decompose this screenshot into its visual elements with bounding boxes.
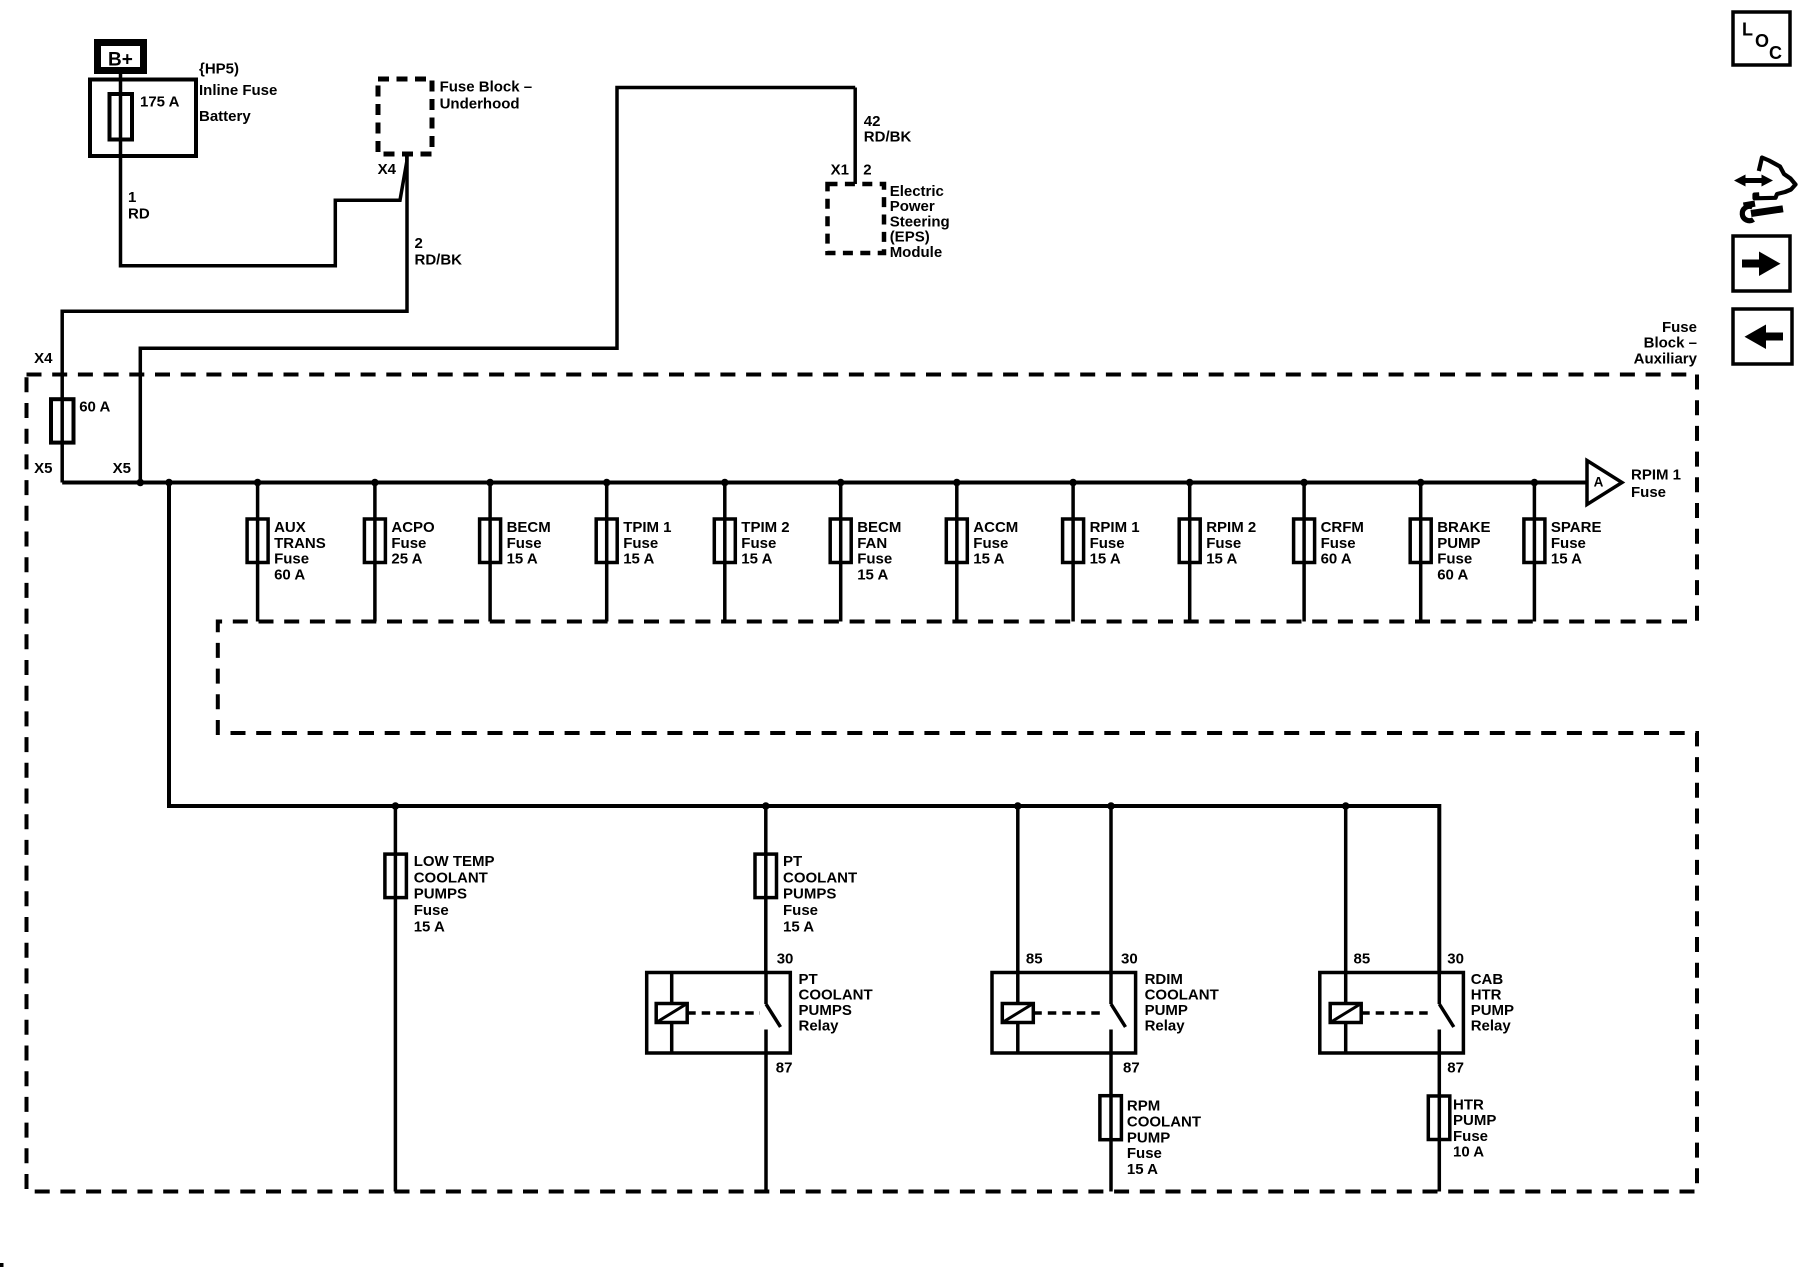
svg-text:Fuse: Fuse [274,551,309,568]
B+ terminal symbol [98,43,144,71]
fuse RPIM 2 [1179,479,1256,622]
fuse PT COOLANT PUMPS [755,802,857,972]
svg-text:COOLANT: COOLANT [783,869,857,886]
svg-text:RD: RD [128,205,150,222]
svg-text:Battery: Battery [199,108,251,125]
fuse RPIM 1 [1063,479,1140,622]
svg-text:PUMP: PUMP [1471,1002,1514,1019]
svg-text:Fuse: Fuse [1551,535,1586,552]
main bus X5 [62,481,1586,485]
svg-text:Fuse: Fuse [857,551,892,568]
svg-text:CRFM: CRFM [1321,519,1364,536]
svg-text:2: 2 [863,162,871,179]
relay CAB HTR PUMP [1320,950,1514,1076]
svg-text:Fuse: Fuse [414,902,449,919]
svg-text:Module: Module [890,244,943,261]
svg-text:Fuse Block –: Fuse Block – [440,79,533,96]
svg-text:RD/BK: RD/BK [864,128,912,145]
svg-text:Fuse: Fuse [507,535,542,552]
svg-text:X1: X1 [831,162,849,179]
svg-text:Relay: Relay [1471,1018,1512,1035]
LOC icon box [1733,12,1790,65]
fuse block auxiliary dashed outline [27,375,1698,1192]
X4 label aux entry [34,350,53,367]
svg-text:AUX: AUX [274,519,306,536]
svg-text:X5: X5 [34,460,52,477]
forward arrow icon [1733,236,1790,291]
svg-text:HTR: HTR [1471,987,1502,1004]
feed wire to lower bus [169,483,1439,973]
svg-text:Fuse: Fuse [1127,1145,1162,1162]
relay PT COOLANT PUMPS [647,950,873,1076]
svg-text:PUMP: PUMP [1145,1002,1188,1019]
svg-text:Relay: Relay [1145,1018,1186,1035]
svg-text:15 A: 15 A [623,551,654,568]
svg-text:Block –: Block – [1644,335,1697,352]
svg-text:87: 87 [1123,1060,1140,1077]
svg-text:PUMP: PUMP [1127,1129,1170,1146]
svg-text:HTR: HTR [1453,1096,1484,1113]
back arrow icon [1733,309,1792,364]
X4 pin label underhood [378,161,397,178]
svg-text:RPIM 2: RPIM 2 [1206,519,1256,536]
svg-text:CAB: CAB [1471,971,1504,988]
svg-text:RPIM 1: RPIM 1 [1090,519,1140,536]
svg-text:15 A: 15 A [741,551,772,568]
svg-text:15 A: 15 A [1551,551,1582,568]
EPS module labels [890,183,950,261]
svg-text:Fuse: Fuse [391,535,426,552]
svg-text:30: 30 [777,950,794,967]
wire 2 RD/BK down to aux block [62,156,407,483]
svg-text:Relay: Relay [799,1018,840,1035]
svg-text:PT: PT [783,853,802,870]
svg-text:85: 85 [1026,950,1043,967]
svg-text:15 A: 15 A [857,566,888,583]
svg-text:BECM: BECM [857,519,901,536]
svg-text:Underhood: Underhood [440,96,520,113]
fuse BECM FAN [830,479,901,622]
X5 labels [34,460,131,477]
svg-text:COOLANT: COOLANT [1127,1114,1201,1131]
svg-text:Fuse: Fuse [1090,535,1125,552]
svg-text:60 A: 60 A [1437,566,1468,583]
svg-text:TPIM 2: TPIM 2 [741,519,789,536]
battery labels [199,60,277,125]
fuse 60 A [51,398,110,442]
svg-text:Fuse: Fuse [973,535,1008,552]
svg-text:175 A: 175 A [140,94,180,111]
svg-text:30: 30 [1121,950,1138,967]
fuse HTR PUMP [1428,1053,1496,1192]
fuse 175 A [110,94,180,140]
svg-text:TPIM 1: TPIM 1 [623,519,671,536]
svg-text:PUMP: PUMP [1437,535,1480,552]
svg-text:15 A: 15 A [507,551,538,568]
svg-text:Fuse: Fuse [741,535,776,552]
svg-text:SPARE: SPARE [1551,519,1602,536]
svg-text:B+: B+ [108,50,133,71]
svg-text:{HP5): {HP5) [199,60,239,77]
svg-text:RPIM 1: RPIM 1 [1631,467,1681,484]
junction node wire 42 [137,479,145,487]
fuse block underhood dashed box [378,79,432,154]
wire 85 CAB HTR relay [1342,802,1350,972]
svg-text:10 A: 10 A [1453,1144,1484,1161]
wires 85 30 RDIM relay [1014,802,1115,972]
svg-text:X4: X4 [378,161,397,178]
wire 87 PT relay down [764,1053,768,1192]
fuse LOW TEMP COOLANT PUMPS [385,802,495,1191]
label 1 RD [128,189,150,223]
svg-text:Fuse: Fuse [1437,551,1472,568]
fuse TPIM 2 [714,479,789,622]
junction node feed tap [165,479,173,487]
fuse RPM COOLANT PUMP [1100,1053,1201,1192]
wire 1 RD from battery to underhood X4 [121,74,407,266]
svg-text:RDIM: RDIM [1145,971,1183,988]
fuse AUX TRANS [247,479,326,622]
svg-text:Auxiliary: Auxiliary [1634,351,1698,368]
fuse CRFM [1294,479,1364,622]
fuse SPARE [1524,479,1602,622]
fuse TPIM 1 [596,479,671,622]
battery / inline fuse box [90,80,196,157]
svg-text:RD/BK: RD/BK [415,252,463,269]
svg-text:A: A [1594,475,1604,490]
svg-text:Fuse: Fuse [1321,535,1356,552]
svg-text:15 A: 15 A [1090,551,1121,568]
svg-text:TRANS: TRANS [274,535,326,552]
svg-text:BECM: BECM [507,519,551,536]
svg-text:Fuse: Fuse [1631,484,1666,501]
svg-text:87: 87 [1447,1060,1464,1077]
svg-text:2: 2 [415,235,423,252]
svg-text:25 A: 25 A [391,551,422,568]
EPS module dashed box [828,184,885,253]
svg-text:15 A: 15 A [1127,1161,1158,1178]
svg-text:L: L [1742,20,1753,40]
fuse BRAKE PUMP [1410,479,1490,622]
label 2 RD/BK [415,235,463,269]
svg-text:BRAKE: BRAKE [1437,519,1490,536]
svg-text:ACPO: ACPO [391,519,435,536]
svg-text:30: 30 [1447,950,1464,967]
svg-text:1: 1 [128,189,136,206]
svg-text:60 A: 60 A [274,566,305,583]
scan speck bottom left [0,1263,4,1267]
fuse block underhood labels [440,79,533,113]
svg-text:COOLANT: COOLANT [1145,987,1219,1004]
fuse ACCM [946,479,1018,622]
svg-text:60 A: 60 A [1321,551,1352,568]
svg-text:Fuse: Fuse [1453,1128,1488,1145]
svg-text:15 A: 15 A [973,551,1004,568]
connector triangle A [1587,461,1622,505]
svg-text:PT: PT [799,971,818,988]
svg-text:Fuse: Fuse [623,535,658,552]
svg-text:ACCM: ACCM [973,519,1018,536]
svg-text:Fuse: Fuse [783,902,818,919]
svg-text:X5: X5 [113,460,131,477]
fuse ACPO [364,479,435,622]
svg-text:X4: X4 [34,350,53,367]
svg-text:COOLANT: COOLANT [414,869,488,886]
svg-text:85: 85 [1354,950,1371,967]
svg-text:Fuse: Fuse [1662,319,1697,336]
svg-text:87: 87 [776,1060,793,1077]
svg-text:COOLANT: COOLANT [799,987,873,1004]
svg-text:15 A: 15 A [783,919,814,936]
svg-text:Inline Fuse: Inline Fuse [199,82,277,99]
svg-text:RPM: RPM [1127,1098,1160,1115]
RPIM 1 Fuse label [1631,467,1681,501]
svg-text:PUMPS: PUMPS [799,1002,852,1019]
label 42 RD/BK [864,113,912,145]
jump/hand icon [1734,158,1796,221]
relay RDIM COOLANT PUMP [992,950,1219,1076]
svg-text:LOW TEMP: LOW TEMP [414,853,495,870]
svg-text:PUMPS: PUMPS [414,886,467,903]
fuse BECM [480,479,551,622]
svg-text:60 A: 60 A [79,398,110,415]
svg-text:O: O [1755,31,1769,51]
pin labels X1 2 [831,162,872,179]
svg-text:Fuse: Fuse [1206,535,1241,552]
svg-text:15 A: 15 A [1206,551,1237,568]
fuse block auxiliary title [1634,319,1698,368]
svg-text:C: C [1769,43,1782,63]
svg-text:PUMPS: PUMPS [783,886,836,903]
svg-text:15 A: 15 A [414,919,445,936]
svg-text:PUMP: PUMP [1453,1112,1496,1129]
wire 42 RD/BK from EPS to aux block [140,88,855,483]
svg-text:FAN: FAN [857,535,887,552]
